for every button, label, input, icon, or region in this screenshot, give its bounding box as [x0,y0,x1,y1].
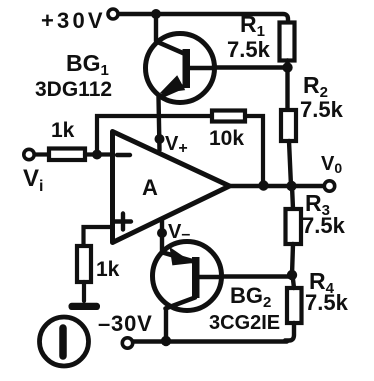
wire R2 to output node [289,141,291,186]
resistor R4 [287,288,302,323]
wire top rail [119,14,289,23]
wire bottom rail [132,339,288,343]
svg-text:+30V: +30V [41,8,106,33]
svg-text:A: A [142,175,158,200]
junction R3 R4 BG2 base [287,270,297,280]
wire output to R3 [292,186,293,209]
wire Vi to 1k [35,152,50,156]
op-amp U A [113,132,230,243]
wire R4 bottom to rail [285,323,294,341]
svg-text:3CG2IE: 3CG2IE [209,312,280,334]
wire R4 top [293,275,295,288]
wire BG2 collector [164,309,168,342]
wire output [229,184,324,188]
svg-text:7.5k: 7.5k [305,290,349,315]
terminal -30V [122,338,132,348]
wire BG2 base to node [222,274,292,278]
svg-text:7.5k: 7.5k [227,37,271,62]
wire R3 to lower node [292,244,293,275]
wire BG1 base to R1 node [213,65,285,69]
junction bottom rail [161,336,171,346]
svg-text:7.5k: 7.5k [300,97,344,122]
resistor 1k ground [77,246,91,282]
svg-text:1k: 1k [51,119,75,142]
svg-text:3DG112: 3DG112 [35,78,112,101]
transistor BG2 [153,242,223,311]
wire 10k to output [245,116,263,184]
junction feedback output [258,180,268,190]
resistor R2 [281,110,296,141]
wire R1 to R2 [285,61,289,111]
resistor 10k [212,111,245,122]
junction top rail / BG1 collector [151,9,161,19]
resistor R1 [280,23,295,61]
ground [69,303,101,310]
svg-text:–30V: –30V [98,311,153,336]
junction output R2 R3 [286,181,296,191]
figure number 1 [40,317,89,366]
resistor R3 [286,209,302,244]
wire feedback riser [97,116,212,154]
junction R1 R2 base [282,62,292,72]
resistor 1k input [49,149,85,161]
wire BG1 collector [154,14,158,41]
junction V+ [155,134,165,144]
junction inverting input [92,150,102,160]
terminal Vo [324,181,334,191]
terminal +30V [108,9,118,19]
terminal Vi [24,149,34,159]
transistor BG1 [146,34,215,103]
wire noninverting input [84,227,113,246]
svg-text:7.5k: 7.5k [302,213,346,238]
junction V- [157,228,167,238]
svg-text:1k: 1k [96,258,120,281]
svg-text:10k: 10k [209,127,244,150]
wire 1k to inverting input [85,152,112,156]
wire 1k to ground [82,282,86,301]
wire V- emitter [160,219,164,253]
wire BG1 emitter to V+ [159,97,160,150]
